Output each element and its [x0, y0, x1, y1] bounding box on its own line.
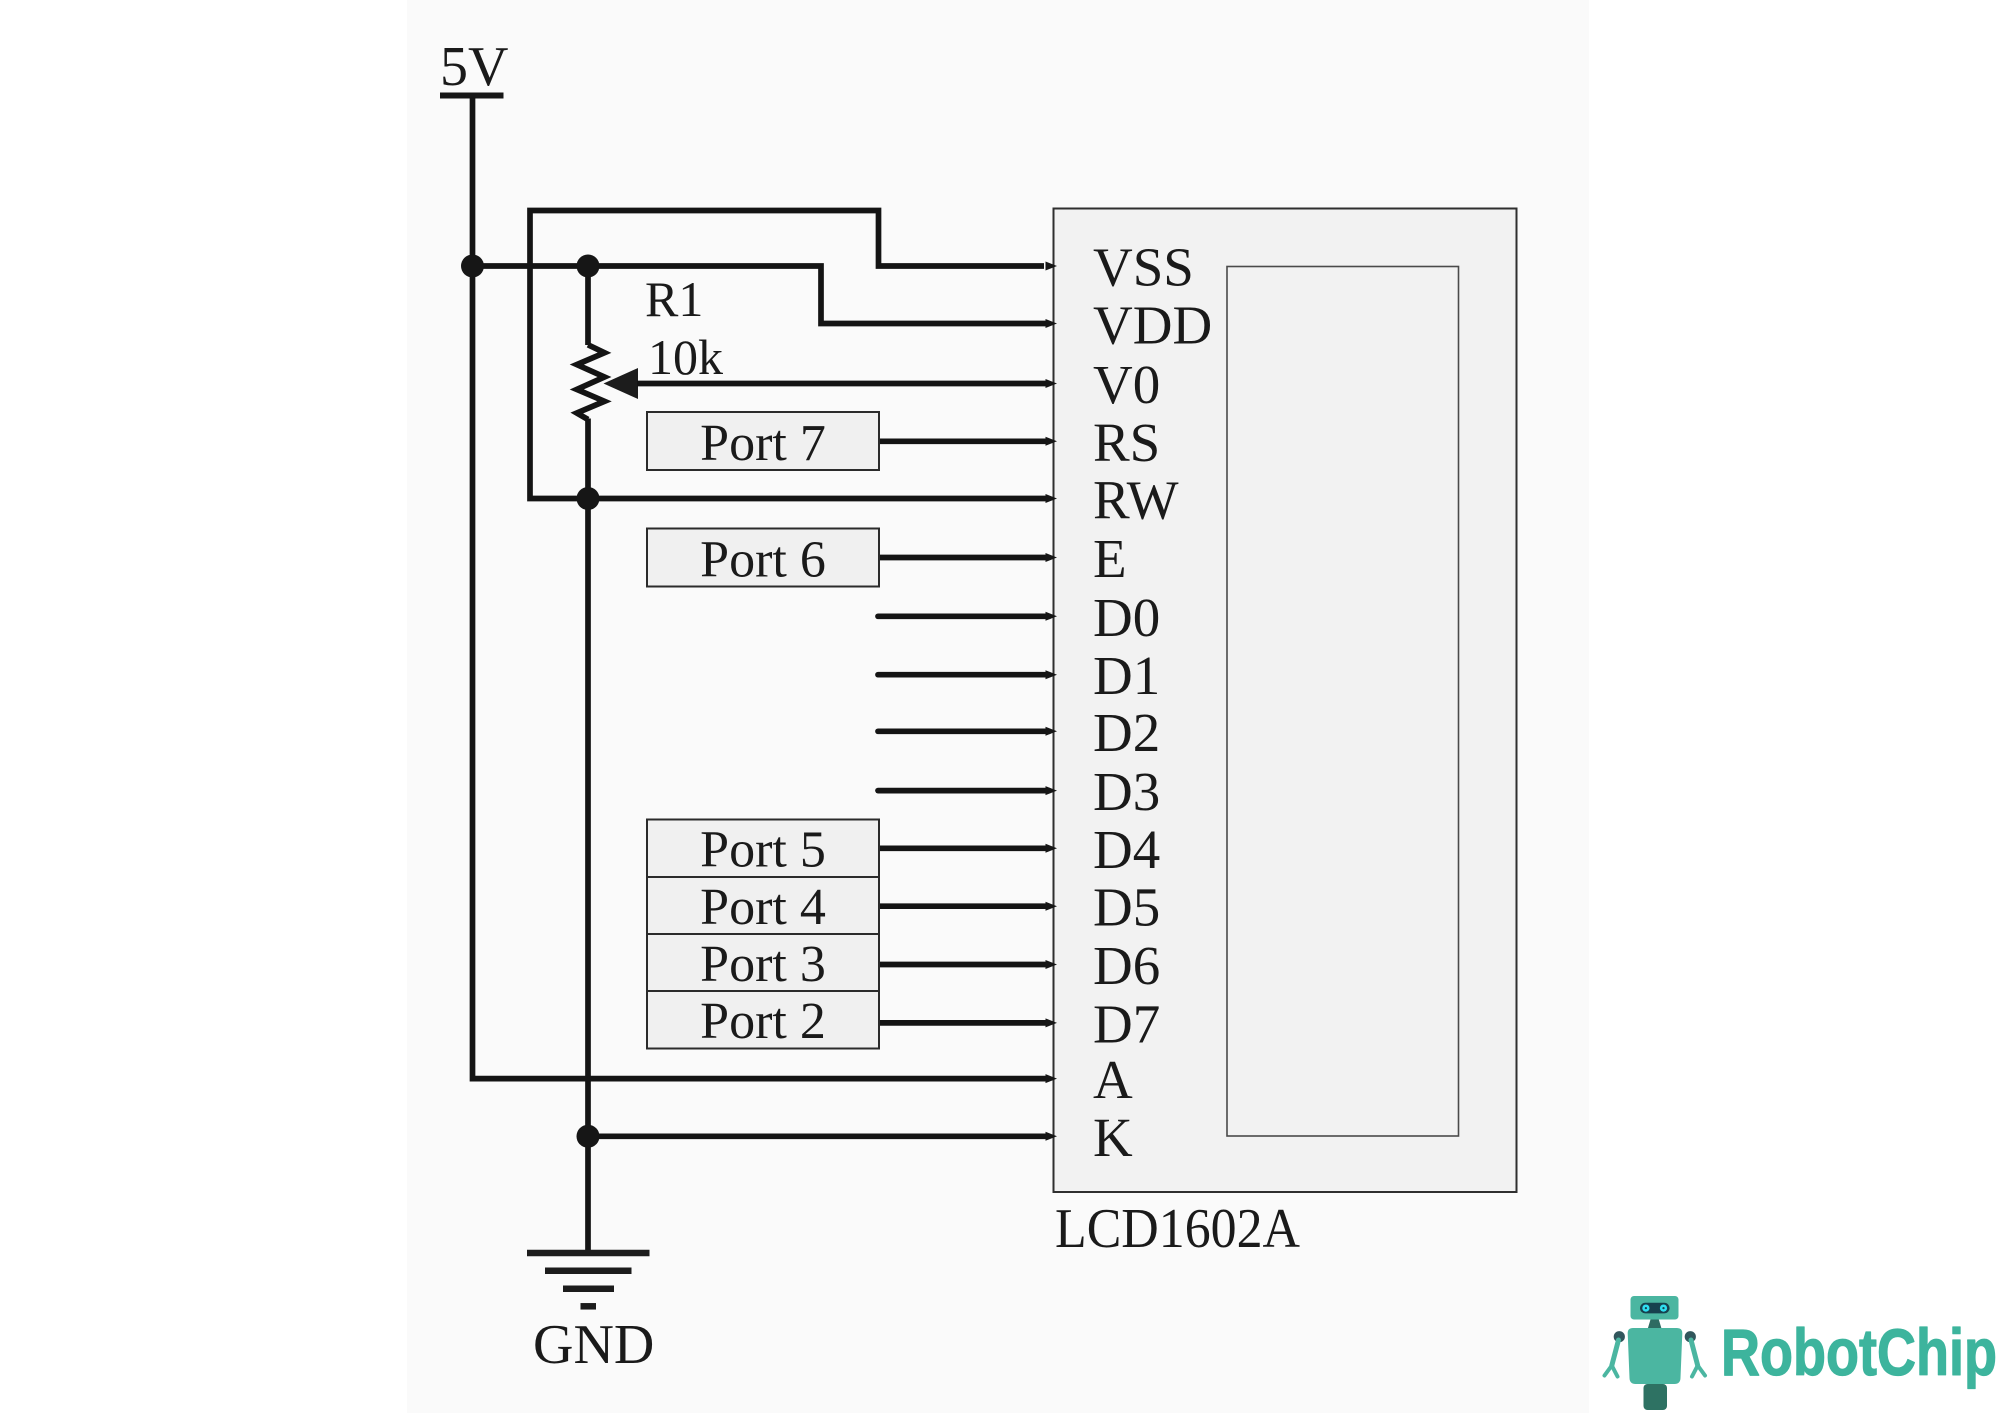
wire 5V rail down to A pin: [473, 97, 1050, 1079]
svg-text:E: E: [1093, 528, 1127, 589]
RobotChip logo robot icon: [1605, 1296, 1706, 1410]
svg-text:R1: R1: [645, 271, 703, 327]
robot left hand: [1605, 1366, 1618, 1377]
LCD display window inner rectangle: [1227, 267, 1459, 1137]
svg-text:D1: D1: [1093, 645, 1160, 706]
LCD module U1 body: [1054, 209, 1517, 1193]
svg-text:VSS: VSS: [1093, 237, 1194, 298]
svg-text:V0: V0: [1093, 354, 1160, 415]
svg-text:D7: D7: [1093, 993, 1160, 1054]
wire D0: [878, 613, 1049, 619]
wire pot bottom down to ground: [585, 419, 591, 1253]
svg-text:Port 7: Port 7: [700, 415, 826, 472]
svg-text:K: K: [1093, 1107, 1133, 1168]
robot head: [1631, 1296, 1679, 1320]
robot right hand: [1692, 1366, 1705, 1377]
svg-text:5V: 5V: [440, 36, 508, 98]
wire D4 from Port 5: [880, 845, 1049, 851]
robot right eye: [1660, 1305, 1667, 1312]
junction node pot top: [577, 255, 600, 278]
junction node RW / pot rail: [577, 487, 600, 510]
robot leg: [1644, 1384, 1668, 1410]
svg-text:D2: D2: [1093, 702, 1160, 763]
svg-text:Port 3: Port 3: [700, 936, 826, 993]
svg-text:A: A: [1093, 1049, 1133, 1110]
wire D3: [878, 788, 1049, 794]
wire D6 from Port 3: [880, 962, 1049, 968]
svg-text:RobotChip: RobotChip: [1721, 1315, 1997, 1389]
junction node K / ground rail: [577, 1125, 600, 1148]
wire pot top to 5V rail: [585, 264, 591, 346]
wire D5 from Port 4: [880, 903, 1049, 909]
junction node at 5V rail: [461, 255, 484, 278]
svg-text:Port 6: Port 6: [700, 532, 826, 589]
Port 4 box: [647, 877, 879, 936]
svg-text:D3: D3: [1093, 761, 1160, 822]
Port 3 box: [647, 934, 879, 993]
svg-text:LCD1602A: LCD1602A: [1055, 1198, 1301, 1260]
robot right shoulder: [1685, 1331, 1696, 1342]
svg-text:Port 2: Port 2: [700, 993, 826, 1050]
potentiometer wiper arrow: [604, 368, 639, 399]
svg-text:RW: RW: [1093, 470, 1179, 531]
pin arrowheads into LCD: [1046, 262, 1058, 1141]
wire 5V to VDD: [473, 266, 1050, 324]
power symbol 5V bar: [440, 93, 504, 99]
Port 2 box: [647, 991, 879, 1050]
wire wiper to V0: [637, 381, 1049, 387]
Port 5 box: [647, 820, 879, 879]
resistor R1 potentiometer zigzag: [577, 345, 605, 420]
svg-text:Port 5: Port 5: [700, 822, 826, 879]
robot right arm: [1691, 1340, 1698, 1366]
robot neck: [1648, 1320, 1662, 1329]
ground symbol: [527, 1253, 650, 1306]
svg-text:VDD: VDD: [1093, 295, 1212, 356]
robot left eye: [1642, 1305, 1649, 1312]
wire K to ground rail: [588, 1133, 1049, 1139]
Port 7 box: [647, 412, 879, 472]
wire D1: [878, 672, 1049, 678]
wire VSS and RW tie: [530, 211, 1049, 499]
svg-text:D5: D5: [1093, 877, 1160, 938]
wire E from Port 6: [880, 555, 1049, 561]
wire D2: [878, 728, 1049, 734]
Port 6 box: [647, 529, 879, 589]
svg-text:D0: D0: [1093, 587, 1160, 648]
wire RS from Port 7: [880, 438, 1049, 444]
svg-text:RS: RS: [1093, 412, 1160, 473]
wire D7 from Port 2: [880, 1020, 1049, 1026]
svg-text:D6: D6: [1093, 935, 1160, 996]
svg-text:10k: 10k: [648, 329, 723, 385]
robot left arm: [1612, 1340, 1619, 1366]
svg-text:Port 4: Port 4: [700, 879, 826, 936]
robot eye band: [1640, 1303, 1670, 1314]
svg-text:D4: D4: [1093, 819, 1160, 880]
svg-text:GND: GND: [533, 1314, 654, 1376]
robot left shoulder: [1614, 1331, 1625, 1342]
robot body: [1628, 1328, 1683, 1384]
